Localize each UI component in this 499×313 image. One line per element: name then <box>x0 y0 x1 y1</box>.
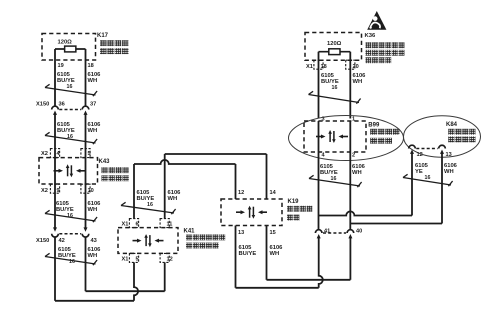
svg-text:11: 11 <box>167 222 173 228</box>
svg-text:X1: X1 <box>122 257 129 263</box>
svg-text:16: 16 <box>147 202 153 208</box>
svg-text:42: 42 <box>59 238 65 244</box>
svg-text:37: 37 <box>90 102 96 108</box>
svg-text:16: 16 <box>425 175 431 181</box>
svg-text:12: 12 <box>167 257 173 263</box>
svg-text:WH: WH <box>88 128 98 134</box>
svg-text:13: 13 <box>446 152 452 158</box>
svg-text:WH: WH <box>168 196 178 202</box>
svg-text:WH: WH <box>353 79 363 85</box>
svg-text:X150: X150 <box>36 238 49 244</box>
svg-text:BU/YE: BU/YE <box>239 251 257 257</box>
svg-text:WH: WH <box>88 78 98 84</box>
svg-text:X1: X1 <box>122 222 129 228</box>
svg-text:X1: X1 <box>306 64 313 70</box>
svg-text:WH: WH <box>270 251 280 257</box>
svg-text:X150: X150 <box>36 102 49 108</box>
svg-text:WH: WH <box>444 169 454 175</box>
svg-text:16: 16 <box>332 85 338 91</box>
svg-text:B99: B99 <box>368 122 380 128</box>
svg-text:2: 2 <box>352 153 355 159</box>
svg-text:19: 19 <box>58 63 64 69</box>
svg-text:WH: WH <box>88 207 98 213</box>
svg-text:120Ω: 120Ω <box>327 41 342 47</box>
svg-text:13: 13 <box>238 230 244 236</box>
svg-text:WH: WH <box>88 253 98 259</box>
svg-text:43: 43 <box>91 238 97 244</box>
svg-text:15: 15 <box>270 230 276 236</box>
svg-text:K84: K84 <box>446 122 458 128</box>
svg-text:40: 40 <box>356 229 362 235</box>
svg-text:5: 5 <box>136 257 139 263</box>
svg-text:K17: K17 <box>97 33 109 39</box>
svg-text:6: 6 <box>136 222 139 228</box>
svg-text:K41: K41 <box>184 229 196 235</box>
svg-text:20: 20 <box>353 64 359 70</box>
svg-text:X2: X2 <box>41 188 48 194</box>
svg-text:12: 12 <box>238 190 244 196</box>
svg-text:18: 18 <box>321 64 327 70</box>
svg-text:16: 16 <box>331 176 337 182</box>
svg-text:K43: K43 <box>99 159 111 165</box>
svg-text:16: 16 <box>67 84 73 90</box>
svg-text:120Ω: 120Ω <box>58 40 73 46</box>
svg-text:9: 9 <box>57 188 60 194</box>
svg-text:5: 5 <box>88 151 91 157</box>
svg-text:K19: K19 <box>288 199 300 205</box>
svg-text:36: 36 <box>59 102 65 108</box>
svg-text:K36: K36 <box>365 33 377 39</box>
svg-text:10: 10 <box>88 188 94 194</box>
svg-text:12: 12 <box>417 152 423 158</box>
svg-text:YE: YE <box>415 169 423 175</box>
svg-text:WH: WH <box>352 170 362 176</box>
svg-text:14: 14 <box>270 190 277 196</box>
svg-text:18: 18 <box>88 63 94 69</box>
svg-text:X2: X2 <box>41 151 48 157</box>
